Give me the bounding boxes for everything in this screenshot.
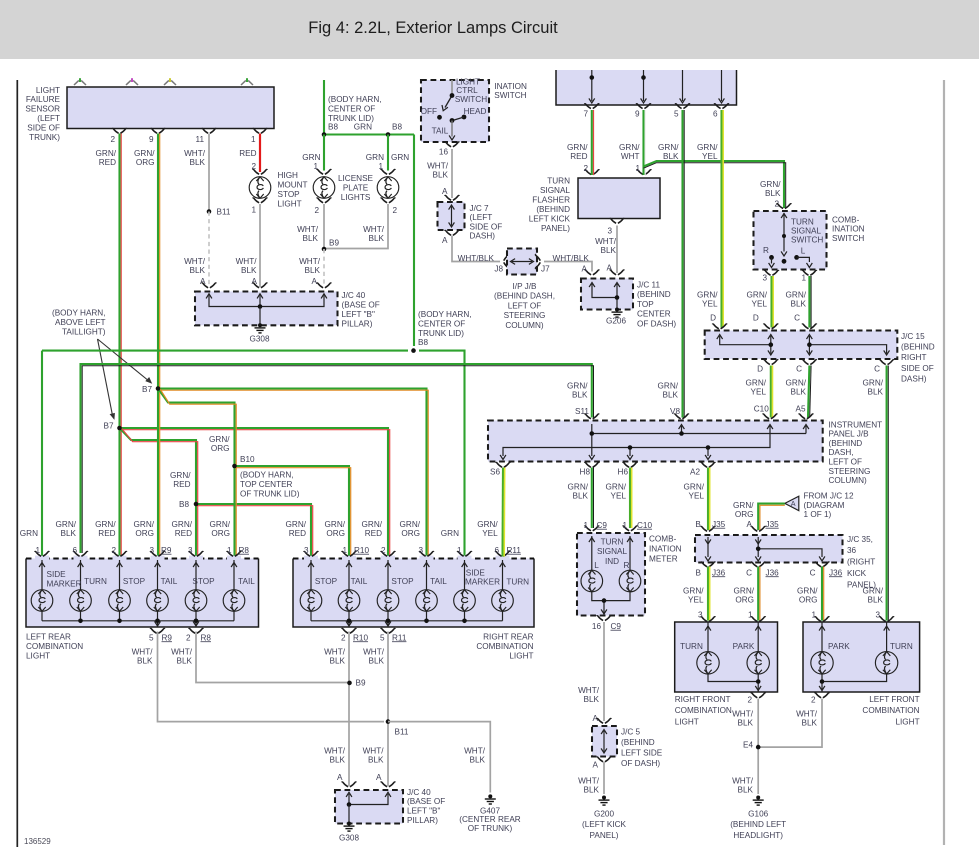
svg-text:3: 3 (607, 226, 612, 235)
svg-text:A: A (312, 277, 318, 286)
wire GRN down right side of license lamps (413, 135, 415, 347)
svg-text:RED: RED (239, 149, 256, 158)
junction B7 on GRN/ORG (156, 386, 161, 391)
svg-text:ORG: ORG (799, 596, 818, 605)
right front internal wiring (708, 622, 758, 692)
right rear bulbs (300, 590, 322, 612)
svg-text:SWITCH: SWITCH (494, 91, 526, 100)
J/C 35 36 top cups (701, 526, 716, 531)
svg-text:SWITCH: SWITCH (455, 95, 487, 104)
wire GRN/BLK switch pin 5 to V8 (681, 110, 683, 418)
wire WHT/BLK J/C 5 to G200 (603, 762, 605, 794)
svg-text:WHT/: WHT/ (363, 647, 385, 656)
svg-text:C9: C9 (597, 521, 608, 530)
svg-text:RIGHT: RIGHT (901, 353, 926, 362)
junction B11 lower (386, 719, 391, 724)
left page border (16, 80, 18, 847)
svg-text:WHT/: WHT/ (324, 647, 346, 656)
svg-text:GRN/: GRN/ (658, 143, 679, 152)
svg-text:3: 3 (304, 546, 309, 555)
svg-text:SIGNAL: SIGNAL (597, 547, 627, 556)
svg-text:3: 3 (762, 274, 767, 283)
svg-text:BLK: BLK (663, 391, 679, 400)
right rear combination light box (293, 559, 534, 628)
high mount stop light bulb (253, 169, 268, 174)
wire WHT/BLK right rear R11-5 down to J/C40 (387, 632, 389, 787)
svg-text:GRN/: GRN/ (658, 381, 679, 390)
svg-text:COMBINATION: COMBINATION (476, 642, 533, 651)
svg-text:BLK: BLK (791, 300, 807, 309)
svg-text:HEAD: HEAD (464, 107, 487, 116)
svg-text:C: C (746, 568, 752, 577)
from J/C 12 connector triangle (785, 496, 799, 510)
wire GRN/RED sensor pin 2 down to left rear stop pin 2 (118, 134, 120, 557)
svg-text:WHT/: WHT/ (324, 746, 346, 755)
svg-text:R8: R8 (239, 546, 250, 555)
svg-text:LEFT "B": LEFT "B" (342, 310, 376, 319)
svg-text:B: B (696, 568, 702, 577)
svg-text:GRN/: GRN/ (325, 520, 346, 529)
wire WHT/BLK left rear R8-2 to B9 (196, 632, 349, 683)
wire GRN/RED branch B7 to right rear stop pin 2 (120, 428, 389, 557)
svg-text:LEFT "B": LEFT "B" (407, 807, 441, 816)
wire GRN/YEL S6 to right rear turn pin 6 (501, 468, 504, 557)
svg-text:C9: C9 (611, 622, 622, 631)
svg-text:ORG: ORG (135, 529, 154, 538)
svg-text:J35: J35 (766, 520, 780, 529)
svg-text:GRN/: GRN/ (786, 378, 807, 387)
svg-text:COMB-: COMB- (649, 534, 677, 543)
svg-text:RED: RED (99, 158, 116, 167)
svg-text:WHT/: WHT/ (427, 161, 449, 170)
right front light top cups (701, 617, 716, 622)
svg-text:TAIL: TAIL (161, 577, 178, 586)
svg-text:PLATE: PLATE (343, 183, 369, 192)
svg-text:R9: R9 (162, 633, 173, 642)
svg-text:6: 6 (72, 546, 77, 555)
svg-text:36: 36 (847, 546, 857, 555)
svg-text:1: 1 (251, 135, 256, 144)
wire WHT/BLK dashed B11 to J/C40 (208, 212, 210, 288)
junction connector J/C 35 36 (695, 535, 843, 563)
svg-text:B10: B10 (240, 455, 255, 464)
wire WHT/BLK left front pin 2 to E4 (758, 699, 822, 748)
svg-text:GRN/: GRN/ (56, 520, 77, 529)
svg-text:GRN/: GRN/ (567, 143, 588, 152)
svg-text:H6: H6 (618, 467, 629, 476)
svg-text:J35: J35 (712, 520, 726, 529)
svg-text:TAIL: TAIL (351, 577, 368, 586)
svg-text:STOP: STOP (391, 577, 414, 586)
svg-text:GRN/: GRN/ (697, 143, 718, 152)
svg-text:STOP: STOP (278, 190, 301, 199)
svg-text:16: 16 (592, 622, 602, 631)
svg-text:WHT/: WHT/ (171, 647, 193, 656)
svg-text:A2: A2 (690, 467, 700, 476)
J/C 7 internal arrow (451, 207, 453, 226)
svg-text:ORG: ORG (326, 529, 345, 538)
ground G308 upper (255, 323, 266, 333)
wire GRN/ORG sensor pin 9 down to left rear tail pin 3 (157, 134, 159, 557)
svg-text:TURN: TURN (547, 176, 570, 185)
wire WHT/BLK left license to B9 (323, 204, 325, 249)
svg-text:BLK: BLK (190, 266, 206, 275)
svg-text:B8: B8 (179, 500, 189, 509)
svg-text:GRN/: GRN/ (786, 290, 807, 299)
svg-text:(CENTER REAR: (CENTER REAR (459, 815, 520, 824)
svg-text:B8: B8 (328, 122, 338, 131)
svg-text:SWITCH: SWITCH (832, 234, 864, 243)
svg-text:3: 3 (698, 610, 703, 619)
flasher pin 3 cup (610, 218, 625, 223)
svg-text:YEL: YEL (702, 152, 718, 161)
J/C 15 bottom cups (764, 360, 779, 365)
pointer arrow to lower B7 (98, 339, 113, 416)
J/C 35 36 bottom cups (701, 562, 716, 567)
svg-text:LICENSE: LICENSE (338, 174, 374, 183)
svg-text:SIGNAL: SIGNAL (791, 227, 821, 236)
wire GRN/YEL H6 to combination meter C10 (629, 468, 631, 529)
svg-text:BLK: BLK (584, 786, 600, 795)
svg-text:GRN: GRN (354, 122, 372, 131)
svg-text:J/C 15: J/C 15 (901, 332, 925, 341)
left rear combination light box (26, 559, 259, 628)
svg-text:3: 3 (188, 546, 193, 555)
ground G206 (612, 308, 623, 318)
svg-text:GRN/: GRN/ (683, 586, 704, 595)
J/C 40 upper pin cups (202, 283, 217, 288)
svg-text:PILLAR): PILLAR) (342, 319, 373, 328)
junction B11 upper (207, 209, 212, 214)
svg-text:R9: R9 (161, 546, 172, 555)
wire GRN horizontal to left side marker (42, 350, 408, 352)
svg-text:2: 2 (186, 633, 191, 642)
svg-text:(BODY HARN,: (BODY HARN, (328, 95, 382, 104)
svg-text:(BEHIND: (BEHIND (637, 290, 671, 299)
svg-text:C: C (794, 313, 800, 322)
svg-text:YEL: YEL (752, 300, 768, 309)
svg-text:TURN: TURN (506, 577, 529, 586)
wire WHT/BLK high mount to J/C40 (259, 204, 261, 287)
wire WHT/BLK dashed B9 to J/C40 (323, 249, 325, 287)
junction B8 lower (411, 348, 416, 353)
ground G407 (485, 794, 496, 804)
svg-text:A: A (593, 760, 599, 769)
wire WHT/BLK right front pin 2 to ground G106 (757, 699, 759, 795)
svg-text:136529: 136529 (24, 837, 51, 846)
svg-text:MARKER: MARKER (465, 577, 500, 586)
title bar (0, 0, 979, 59)
I/P J/B internal arrow (512, 261, 532, 263)
junction connector J/C 5 (592, 726, 617, 757)
svg-text:FLASHER: FLASHER (532, 195, 570, 204)
svg-text:5: 5 (380, 633, 385, 642)
wire WHT/BLK meter 16 to J/C 5 (603, 622, 605, 721)
svg-text:6: 6 (494, 546, 499, 555)
svg-text:1: 1 (251, 205, 256, 214)
svg-text:SIDE OF: SIDE OF (901, 364, 934, 373)
svg-text:R8: R8 (201, 633, 212, 642)
svg-text:LIGHT: LIGHT (26, 651, 50, 660)
svg-text:A5: A5 (795, 404, 805, 413)
svg-text:G308: G308 (249, 334, 269, 343)
svg-text:1 OF 1): 1 OF 1) (804, 510, 832, 519)
J/C 5 bottom cup (597, 757, 612, 762)
svg-text:GRN/: GRN/ (170, 471, 191, 480)
svg-text:C: C (796, 364, 802, 373)
svg-text:B11: B11 (217, 207, 231, 216)
svg-text:RED: RED (570, 152, 587, 161)
svg-text:LEFT OF: LEFT OF (508, 301, 542, 310)
svg-text:J7: J7 (541, 264, 550, 273)
junction connector J/C 15 (705, 331, 898, 360)
wire WHT/BLK flasher pin 3 to J/C 11 (616, 226, 618, 274)
svg-text:GRN/: GRN/ (697, 290, 718, 299)
svg-text:TURN: TURN (680, 642, 703, 651)
junction connector J/C 40 upper (195, 292, 338, 326)
svg-text:(DIAGRAM: (DIAGRAM (804, 501, 845, 510)
wire GRN from body harness top (323, 80, 325, 135)
svg-text:CENTER OF: CENTER OF (328, 104, 375, 113)
junction connector J/C 11 (581, 279, 633, 310)
svg-text:J/C 7: J/C 7 (470, 204, 490, 213)
left rear internal wiring (42, 560, 234, 627)
svg-text:GRN: GRN (366, 153, 384, 162)
wire GRN to left license lamp (323, 135, 325, 171)
wire GRN/ORG branch B7 to right rear tail pin 3 (158, 389, 427, 557)
svg-text:INATION: INATION (649, 544, 682, 553)
wire GRN/ORG branch B7 to left rear tail pin 1 (158, 389, 235, 557)
wire GRN to right license lamp (387, 135, 389, 171)
svg-text:J36: J36 (712, 568, 726, 577)
svg-text:(BEHIND: (BEHIND (829, 439, 863, 448)
left rear pin gaps and cups (35, 556, 49, 562)
svg-text:BLK: BLK (305, 266, 321, 275)
svg-text:BLK: BLK (584, 695, 600, 704)
svg-text:(BASE OF: (BASE OF (342, 301, 380, 310)
svg-text:BLK: BLK (368, 756, 384, 765)
svg-text:BLK: BLK (738, 786, 754, 795)
wire GRN/BLK J/C 15 C to left front turn pin 3 (886, 366, 888, 621)
svg-text:BLK: BLK (802, 719, 818, 728)
J/C 7 bottom cup (445, 230, 460, 235)
svg-text:GRN/: GRN/ (96, 149, 117, 158)
svg-text:A: A (582, 264, 588, 273)
svg-text:PANEL): PANEL) (590, 831, 619, 840)
svg-text:H8: H8 (580, 467, 591, 476)
svg-text:(BODY HARN,: (BODY HARN, (418, 310, 472, 319)
light control switch contacts (451, 80, 453, 96)
svg-text:GRN/: GRN/ (210, 520, 231, 529)
wire WHT/BLK I/P J/B to J/C 11 (544, 262, 592, 272)
svg-text:1: 1 (227, 546, 232, 555)
wire GRN/ORG J36 C to right front park pin 1 (757, 567, 759, 621)
light failure sensor box (67, 87, 274, 129)
right front combination light box (675, 622, 778, 692)
svg-text:RED: RED (98, 529, 115, 538)
svg-text:(BEHIND DASH,: (BEHIND DASH, (494, 292, 555, 301)
svg-text:KICK: KICK (847, 569, 867, 578)
right page border (943, 80, 945, 845)
svg-text:1: 1 (748, 610, 753, 619)
junction B10 on GRN/ORG (232, 464, 237, 469)
svg-text:HEADLIGHT): HEADLIGHT) (733, 831, 783, 840)
J/C 40 lower internal wiring (349, 794, 388, 805)
J/C 40 lower pin cups (342, 782, 357, 787)
wire GRN to right side marker pin 1 (419, 351, 465, 557)
light control switch box (421, 80, 489, 142)
svg-text:TRUNK): TRUNK) (29, 133, 60, 142)
svg-text:R11: R11 (507, 546, 522, 555)
wire WHT/BLK tail to J/C 7 (451, 149, 453, 198)
J/C 40 upper internal wiring (209, 296, 324, 307)
svg-text:(BEHIND: (BEHIND (621, 738, 655, 747)
svg-text:(LEFT KICK: (LEFT KICK (582, 820, 627, 829)
svg-text:COLUMN): COLUMN) (505, 321, 543, 330)
svg-text:WHT/: WHT/ (595, 237, 617, 246)
svg-text:GRN/: GRN/ (733, 501, 754, 510)
svg-text:WHT: WHT (621, 152, 640, 161)
svg-text:GRN: GRN (302, 153, 320, 162)
svg-text:BLK: BLK (572, 391, 588, 400)
license plate light left bulb (317, 169, 332, 174)
svg-text:3: 3 (418, 546, 423, 555)
svg-text:C10: C10 (637, 521, 652, 530)
svg-text:A: A (442, 236, 448, 245)
svg-text:S6: S6 (490, 467, 500, 476)
svg-text:GRN/: GRN/ (134, 520, 155, 529)
junction B7 on GRN/RED (117, 426, 122, 431)
junction B8 b (386, 132, 391, 137)
flasher pin cups (585, 170, 600, 175)
svg-text:R: R (763, 246, 769, 255)
svg-text:G308: G308 (339, 833, 359, 842)
svg-text:TURN: TURN (791, 217, 814, 226)
svg-text:B11: B11 (395, 727, 409, 736)
svg-text:(BEHIND: (BEHIND (536, 205, 570, 214)
svg-text:LEFT SIDE: LEFT SIDE (621, 748, 663, 757)
svg-text:2: 2 (111, 546, 116, 555)
license plate light right bulb (381, 169, 396, 174)
instrument panel J/B bottom cups (496, 462, 511, 467)
svg-text:ORG: ORG (211, 529, 230, 538)
svg-text:E4: E4 (743, 740, 753, 749)
svg-text:ORG: ORG (136, 158, 155, 167)
svg-text:I/P J/B: I/P J/B (513, 282, 538, 291)
left front combination light box (803, 622, 920, 692)
svg-text:COMBINATION: COMBINATION (26, 642, 83, 651)
J/C 35 36 internal wiring (708, 537, 822, 557)
pointer arrow to upper B7 (98, 339, 150, 382)
svg-text:J/C 40: J/C 40 (407, 788, 431, 797)
wire WHT/BLK left rear R9-5 to B11 (158, 632, 385, 722)
svg-text:RED: RED (175, 529, 192, 538)
svg-text:CENTER: CENTER (637, 310, 671, 319)
instrument panel J/B top cups (585, 414, 600, 419)
left rear bottom exits (150, 628, 165, 633)
wire GRN/BLK tss pin 1 to J/C 15 C (808, 276, 810, 328)
combination switch pin cups (585, 104, 600, 109)
svg-text:YEL: YEL (689, 492, 705, 501)
svg-text:S11: S11 (575, 407, 589, 416)
svg-text:2: 2 (583, 164, 588, 173)
svg-text:OF DASH): OF DASH) (637, 320, 676, 329)
wire WHT/BLK B11 to ground G407 (388, 722, 490, 793)
wire GRN/YEL tss pin 3 to J/C 15 D (770, 276, 772, 328)
wire GRN down to left side marker pin 1 (41, 351, 43, 557)
svg-text:R: R (624, 561, 630, 570)
instrument panel junction block (488, 421, 823, 462)
svg-text:(LEFT: (LEFT (470, 213, 493, 222)
junction connector J/C 40 lower (335, 790, 403, 824)
light control switch pin 16 (445, 142, 460, 147)
svg-text:STOP: STOP (123, 577, 146, 586)
svg-text:BLK: BLK (791, 388, 807, 397)
wire GRN/RED branch B7 to left rear stop pin 3 (120, 428, 197, 557)
svg-text:PANEL): PANEL) (541, 224, 570, 233)
svg-text:COMB-: COMB- (832, 215, 860, 224)
svg-text:LIGHT: LIGHT (36, 86, 60, 95)
svg-text:YEL: YEL (688, 596, 704, 605)
svg-text:GRN/: GRN/ (172, 520, 193, 529)
J/C 15 internal wiring (720, 336, 887, 354)
svg-text:CTRL: CTRL (456, 86, 478, 95)
turn signal switch output cups (764, 270, 779, 275)
right rear internal wiring (311, 560, 503, 627)
svg-text:1: 1 (457, 546, 462, 555)
svg-text:BLK: BLK (663, 152, 679, 161)
svg-text:SIDE OF: SIDE OF (470, 222, 503, 231)
svg-text:A: A (442, 187, 448, 196)
svg-text:5: 5 (149, 633, 154, 642)
svg-text:GRN/: GRN/ (746, 378, 767, 387)
svg-text:BLK: BLK (61, 529, 77, 538)
svg-text:LIGHT: LIGHT (675, 717, 699, 726)
turn signal flasher box (578, 178, 660, 219)
svg-text:MOUNT: MOUNT (278, 180, 308, 189)
svg-text:ABOVE LEFT: ABOVE LEFT (55, 318, 106, 327)
svg-text:WHT/BLK: WHT/BLK (458, 254, 495, 263)
combination switch box (cut at top) (556, 70, 737, 105)
svg-text:PANEL J/B: PANEL J/B (829, 430, 870, 439)
svg-text:GRN/: GRN/ (477, 520, 498, 529)
svg-text:BLK: BLK (868, 388, 884, 397)
junction B9 upper (322, 247, 327, 252)
wire WHT/BLK J/C 7 to I/P J/B (452, 236, 500, 262)
svg-text:WHT/: WHT/ (363, 225, 385, 234)
svg-text:9: 9 (149, 135, 154, 144)
junction connector J/C 7 (438, 202, 465, 230)
svg-text:MARKER: MARKER (47, 580, 82, 589)
svg-text:TAIL: TAIL (238, 577, 255, 586)
svg-text:STOP: STOP (192, 577, 215, 586)
svg-text:LEFT KICK: LEFT KICK (529, 214, 571, 223)
svg-text:(BODY HARN,: (BODY HARN, (52, 308, 106, 317)
svg-text:TAIL: TAIL (430, 577, 447, 586)
left front light top cups (815, 617, 830, 622)
svg-text:LIGHT: LIGHT (895, 717, 919, 726)
svg-text:GRN: GRN (20, 529, 38, 538)
svg-text:WHT/: WHT/ (796, 709, 818, 718)
cut-wire carets above sensor (74, 80, 86, 85)
svg-text:STEERING: STEERING (829, 467, 871, 476)
svg-text:COLUMN): COLUMN) (829, 476, 867, 485)
svg-text:1: 1 (801, 274, 806, 283)
svg-text:GRN/: GRN/ (747, 290, 768, 299)
svg-text:SIDE OF: SIDE OF (27, 124, 60, 133)
svg-text:YEL: YEL (482, 529, 498, 538)
svg-text:SIDE: SIDE (47, 570, 67, 579)
